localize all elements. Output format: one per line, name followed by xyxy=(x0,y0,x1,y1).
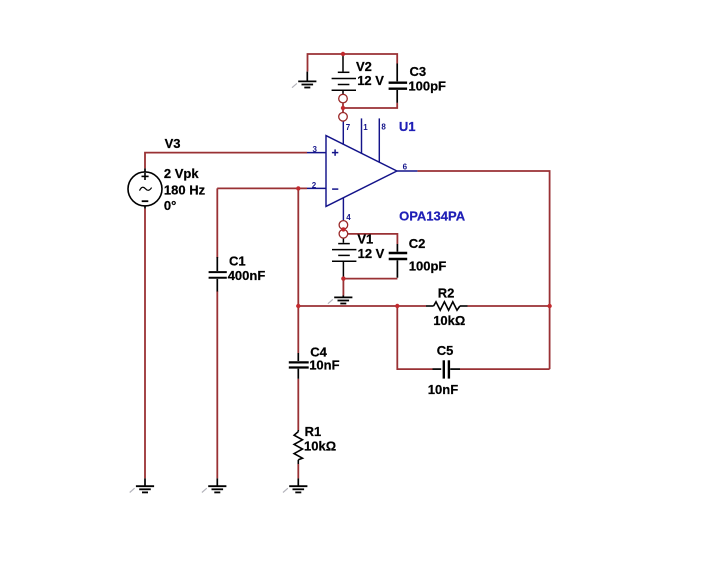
svg-text:R1: R1 xyxy=(305,424,322,439)
svg-text:3: 3 xyxy=(313,145,318,154)
svg-text:U1: U1 xyxy=(399,119,416,134)
svg-text:0°: 0° xyxy=(164,198,176,213)
svg-text:OPA134PA: OPA134PA xyxy=(399,209,466,224)
svg-text:10nF: 10nF xyxy=(309,358,339,373)
svg-text:6: 6 xyxy=(403,163,408,172)
svg-text:12 V: 12 V xyxy=(357,73,384,88)
svg-text:100pF: 100pF xyxy=(409,259,447,274)
svg-text:10nF: 10nF xyxy=(428,382,458,397)
svg-text:2 Vpk: 2 Vpk xyxy=(164,166,199,181)
svg-text:V1: V1 xyxy=(357,232,373,247)
svg-text:100pF: 100pF xyxy=(408,78,446,93)
svg-text:2: 2 xyxy=(312,181,317,190)
svg-text:1: 1 xyxy=(363,123,368,132)
svg-text:C1: C1 xyxy=(229,254,246,269)
svg-text:R2: R2 xyxy=(438,286,455,301)
svg-text:12 V: 12 V xyxy=(358,246,385,261)
svg-text:C5: C5 xyxy=(437,343,454,358)
svg-text:10kΩ: 10kΩ xyxy=(433,313,465,328)
svg-text:4: 4 xyxy=(346,213,351,222)
svg-text:C3: C3 xyxy=(410,64,427,79)
svg-text:8: 8 xyxy=(381,123,386,132)
svg-text:C2: C2 xyxy=(409,236,426,251)
svg-text:V3: V3 xyxy=(165,136,181,151)
svg-text:10kΩ: 10kΩ xyxy=(304,439,336,454)
svg-text:180 Hz: 180 Hz xyxy=(164,183,206,198)
svg-text:7: 7 xyxy=(346,123,351,132)
svg-text:400nF: 400nF xyxy=(228,268,266,283)
